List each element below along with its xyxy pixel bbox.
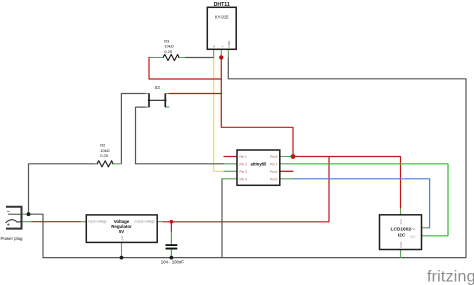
svg-text:Pin 8: Pin 8 [270, 155, 277, 159]
svg-text:output voltage: output voltage [134, 220, 155, 224]
svg-text:5V: 5V [119, 229, 124, 234]
svg-text:Pin 5: Pin 5 [270, 177, 277, 181]
svg-text:Pin 6: Pin 6 [270, 170, 277, 174]
svg-text:gnd: gnd [120, 235, 124, 240]
svg-text:attiny85: attiny85 [250, 162, 266, 167]
svg-text:Pin 3: Pin 3 [240, 170, 247, 174]
svg-text:Pin 1: Pin 1 [240, 155, 247, 159]
svg-text:S: S [212, 45, 216, 47]
svg-text:VCC: VCC [399, 219, 403, 225]
svg-text:GND: GND [399, 242, 403, 248]
svg-text:Power plug: Power plug [1, 236, 24, 241]
svg-text:Pin 2: Pin 2 [240, 162, 247, 166]
svg-text:104 - 100nF: 104 - 100nF [161, 260, 185, 265]
svg-text:Pin 7: Pin 7 [270, 162, 277, 166]
svg-text:GND: GND [227, 40, 231, 48]
svg-text:input voltage: input voltage [88, 220, 107, 224]
svg-text:LCD1602: LCD1602 [391, 227, 412, 233]
svg-text:DHT11: DHT11 [214, 2, 230, 8]
svg-text:0.25: 0.25 [100, 153, 109, 158]
svg-text:+: + [220, 46, 224, 48]
svg-text:SDA: SDA [410, 227, 416, 231]
svg-text:S3: S3 [155, 85, 161, 90]
svg-text:0.25: 0.25 [164, 49, 173, 54]
svg-text:fritzing: fritzing [427, 268, 474, 285]
svg-text:KY-015: KY-015 [215, 15, 229, 20]
svg-text:Pin 4: Pin 4 [240, 177, 247, 181]
svg-text:I2C: I2C [398, 232, 406, 238]
svg-text:SCL: SCL [410, 235, 416, 239]
